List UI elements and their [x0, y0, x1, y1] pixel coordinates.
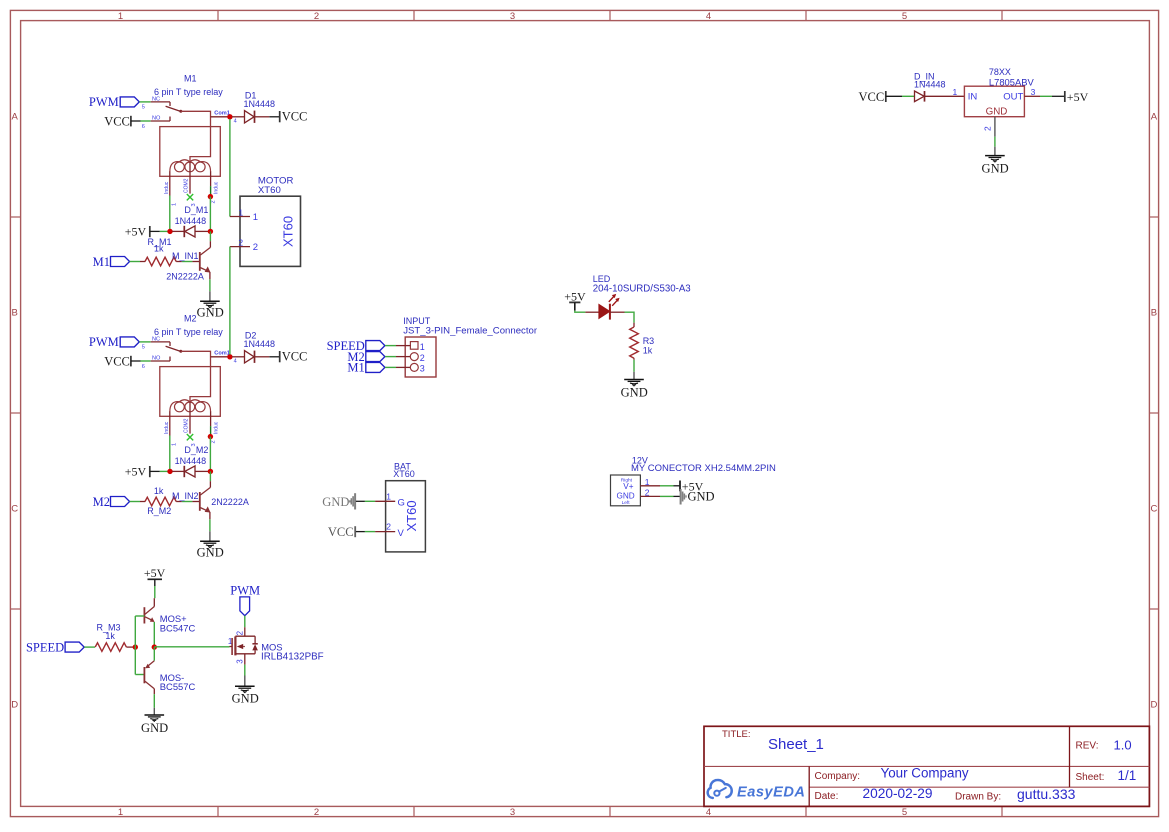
svg-text:GND: GND: [197, 306, 224, 320]
svg-text:5: 5: [902, 807, 907, 818]
svg-text:IRLB4132PBF: IRLB4132PBF: [261, 652, 324, 663]
svg-text:1N4448: 1N4448: [175, 456, 207, 466]
svg-text:Left: Left: [622, 500, 631, 506]
svg-text:1: 1: [171, 443, 177, 446]
svg-text:2N2222A: 2N2222A: [211, 497, 249, 507]
wire source to ground: [244, 654, 246, 686]
net flag +5V: [680, 479, 704, 493]
svg-text:1N4448: 1N4448: [175, 216, 207, 226]
resistor R3 1k: [630, 327, 655, 358]
wire MOS+ emitter to node: [153, 622, 155, 647]
MY pin 1: [640, 477, 660, 487]
junction left diode row: [167, 469, 172, 474]
wire emitter to ground: [209, 512, 211, 541]
wire regulator pin 2 to ground: [983, 117, 995, 156]
svg-text:1: 1: [420, 342, 425, 352]
wire VCC to NO: [131, 117, 170, 122]
wire +5V to MOS+ collector: [153, 586, 156, 607]
svg-text:M_IN1: M_IN1: [172, 251, 199, 261]
svg-text:204-10SURD/S530-A3: 204-10SURD/S530-A3: [593, 284, 691, 295]
ground: [982, 156, 1009, 176]
svg-text:1/1: 1/1: [1118, 768, 1137, 783]
svg-text:2: 2: [253, 242, 258, 253]
BAT pin 1 G: [375, 491, 405, 508]
junction Com1: [227, 354, 232, 359]
EasyEDA logo: [708, 780, 806, 801]
svg-text:XT60: XT60: [258, 185, 281, 196]
svg-text:GND: GND: [986, 107, 1008, 118]
svg-text:INPUT: INPUT: [403, 316, 431, 326]
transistor MOS IRLB4132PBF: [228, 627, 324, 664]
svg-text:1k: 1k: [154, 486, 164, 496]
relay pin labels NC NO Com1: [142, 336, 237, 446]
wire Com1 M1 to MOTOR pin 1: [229, 119, 231, 217]
input port M2: [93, 495, 130, 509]
svg-text:5: 5: [142, 105, 145, 111]
wire PWM to NC: [139, 342, 170, 346]
wire MOSFET gate stub: [230, 646, 233, 648]
net flag +5V at LED: [564, 290, 586, 311]
svg-text:VCC: VCC: [104, 114, 130, 128]
svg-text:M2: M2: [93, 495, 110, 509]
diode D_M2 1N4448: [172, 445, 208, 477]
wire +5V to junction: [150, 230, 168, 232]
svg-text:D: D: [1150, 699, 1157, 710]
svg-text:GND: GND: [982, 161, 1009, 175]
svg-text:PWM: PWM: [89, 335, 119, 349]
transistor MOS+ BC547C: [144, 607, 195, 634]
svg-text:1N4448: 1N4448: [244, 99, 276, 109]
svg-text:5: 5: [142, 345, 145, 351]
wire D_IN to regulator pin 1: [925, 87, 965, 97]
label M1 value: [154, 74, 223, 98]
svg-text:2: 2: [645, 487, 650, 497]
svg-text:M1: M1: [347, 361, 364, 375]
transistor M_IN2 2N2222A: [172, 481, 249, 512]
svg-text:M1: M1: [184, 74, 197, 84]
output port SPEED: [327, 339, 385, 353]
svg-text:B: B: [12, 307, 18, 318]
wire pin 1 to +5V: [660, 485, 680, 487]
wire resistor to base: [176, 261, 199, 263]
svg-text:1: 1: [238, 208, 243, 218]
svg-text:COM2: COM2: [184, 178, 190, 193]
svg-text:Induc: Induc: [213, 181, 219, 194]
svg-text:Induc: Induc: [213, 421, 219, 434]
svg-text:XT60: XT60: [281, 216, 296, 247]
svg-text:+5V: +5V: [1067, 90, 1089, 104]
svg-text:EasyEDA: EasyEDA: [737, 785, 805, 801]
svg-text:PWM: PWM: [89, 95, 119, 109]
output port M1: [347, 361, 384, 375]
row letters right: [1150, 111, 1157, 710]
transistor M_IN1 2N2222A: [166, 241, 210, 281]
junction coil pin 2: [208, 194, 213, 199]
diode D_M1 1N4448: [172, 205, 208, 237]
svg-text:Drawn By:: Drawn By:: [955, 792, 1001, 803]
svg-text:GND: GND: [141, 721, 168, 735]
svg-text:2: 2: [314, 11, 319, 22]
net flag VCC after diode: [269, 110, 307, 124]
svg-text:C: C: [1150, 503, 1157, 514]
net flag VCC at NO: [104, 114, 131, 128]
ground: [621, 380, 648, 400]
svg-text:4: 4: [234, 358, 237, 364]
svg-text:JST_3-PIN_Female_Connector: JST_3-PIN_Female_Connector: [403, 326, 538, 337]
wire node to MOSFET gate: [154, 646, 229, 648]
svg-text:D_M2: D_M2: [184, 445, 208, 455]
svg-text:VCC: VCC: [282, 350, 308, 364]
output port M2: [347, 350, 384, 364]
svg-text:G: G: [398, 498, 405, 509]
svg-text:1: 1: [118, 11, 123, 22]
svg-text:1: 1: [118, 807, 123, 818]
svg-text:BC557C: BC557C: [160, 681, 196, 692]
svg-text:2: 2: [210, 440, 216, 443]
svg-text:1k: 1k: [643, 345, 653, 355]
svg-text:1: 1: [171, 203, 177, 206]
svg-text:2: 2: [314, 807, 319, 818]
svg-text:VCC: VCC: [858, 90, 884, 104]
diode D2 1N4448: [232, 331, 275, 363]
input port SPEED: [26, 641, 84, 655]
svg-text:REV:: REV:: [1076, 741, 1099, 752]
svg-text:A: A: [12, 111, 19, 122]
svg-text:XT60: XT60: [393, 469, 415, 479]
junction coil pin 2: [208, 434, 213, 439]
wire M1 to pin 3: [385, 366, 410, 368]
wire port to resistor: [130, 261, 146, 263]
row letters left: [11, 111, 18, 710]
wire R_M3 to bases: [126, 646, 135, 648]
net flag +5V at regulator: [1065, 90, 1089, 104]
wire SPEED to R_M3: [84, 646, 95, 648]
svg-text:M2: M2: [184, 314, 197, 324]
svg-text:PWM: PWM: [230, 583, 260, 597]
svg-text:2: 2: [236, 630, 245, 635]
wire coil pin 2 down: [210, 426, 212, 434]
wire VCC to D_IN: [886, 95, 914, 97]
svg-text:BC547C: BC547C: [160, 622, 196, 633]
net flag VCC at NO: [104, 354, 131, 368]
svg-text:B: B: [1151, 307, 1157, 318]
wire LED to R3: [610, 312, 634, 327]
svg-text:1k: 1k: [105, 631, 115, 641]
net flag VCC after diode: [269, 350, 307, 364]
svg-text:R_M2: R_M2: [147, 506, 171, 516]
regulator 78XX L7805ABV: [964, 67, 1034, 118]
svg-text:6: 6: [142, 364, 145, 370]
svg-text:COM2: COM2: [184, 418, 190, 433]
resistor R_M2 1k: [145, 486, 176, 516]
wire VCC to BAT pin 2: [356, 531, 375, 533]
wire junction down to diode row: [209, 437, 211, 470]
svg-text:GND: GND: [197, 546, 224, 560]
wire R3 to ground: [633, 358, 635, 379]
svg-text:4: 4: [234, 118, 237, 124]
svg-text:MY CONECTOR XH2.54MM.2PIN: MY CONECTOR XH2.54MM.2PIN: [631, 463, 776, 474]
input port M1: [93, 255, 130, 269]
svg-text:Date:: Date:: [815, 791, 839, 802]
svg-text:C: C: [11, 503, 18, 514]
svg-text:3: 3: [420, 364, 425, 374]
connector 12V MY CONECTOR XH2.54MM.2PIN: [611, 455, 776, 506]
svg-text:Sheet:: Sheet:: [1076, 772, 1105, 783]
svg-text:VCC: VCC: [328, 525, 354, 539]
svg-text:LED: LED: [593, 274, 611, 284]
input port PWM: [89, 335, 139, 349]
svg-text:2: 2: [386, 522, 391, 532]
svg-text:+5V: +5V: [125, 224, 147, 238]
wire output node down: [153, 647, 155, 661]
svg-text:2: 2: [983, 126, 993, 131]
svg-text:Induc: Induc: [164, 181, 170, 194]
net flag GND at BAT: [322, 493, 355, 509]
LED 204-10SURD/S530-A3: [593, 274, 691, 320]
resistor R_M1 1k: [145, 237, 176, 266]
svg-text:M_IN2: M_IN2: [172, 491, 199, 501]
svg-text:3: 3: [236, 659, 245, 664]
ground: [197, 301, 224, 319]
wire resistor to base: [176, 501, 199, 503]
diode D1 1N4448: [232, 91, 275, 123]
svg-text:1.0: 1.0: [1114, 738, 1132, 753]
svg-text:1: 1: [953, 87, 958, 97]
svg-text:Your Company: Your Company: [881, 766, 969, 781]
svg-text:D_M1: D_M1: [184, 205, 208, 215]
wire VCC to NO: [131, 357, 170, 362]
junction output node: [152, 644, 157, 649]
junction right diode row: [208, 229, 213, 234]
title block frame: [704, 726, 1149, 806]
svg-text:1: 1: [645, 477, 650, 487]
wire to transistor collector: [209, 471, 211, 481]
ground: [197, 541, 224, 559]
wire junction down to diode row: [209, 197, 211, 230]
label M2 value: [154, 314, 223, 338]
svg-text:Com1: Com1: [214, 110, 230, 116]
svg-text:6 pin T type relay: 6 pin T type relay: [154, 327, 223, 337]
svg-text:V+: V+: [623, 482, 633, 491]
svg-text:GND: GND: [232, 692, 259, 706]
ground: [232, 686, 259, 705]
resistor R_M3 1k: [95, 623, 126, 652]
svg-text:M1: M1: [93, 255, 110, 269]
net flag VCC at regulator: [858, 90, 885, 104]
input port PWM at MOSFET: [230, 583, 260, 615]
svg-text:1N4448: 1N4448: [914, 80, 946, 90]
wire GND to BAT pin 1: [356, 500, 375, 502]
svg-text:2N2222A: 2N2222A: [166, 271, 204, 281]
wire to transistor collector: [209, 231, 211, 241]
connector MOTOR XT60: [240, 176, 301, 267]
svg-text:GND: GND: [617, 492, 635, 501]
wire regulator pin 3 to +5V: [1024, 87, 1064, 97]
connector BAT XT60: [386, 461, 426, 552]
wire port to resistor: [130, 501, 146, 503]
svg-text:IN: IN: [968, 92, 978, 103]
net flag +5V at driver: [144, 566, 166, 586]
svg-text:3: 3: [510, 807, 515, 818]
title block texts: [722, 729, 1136, 803]
input port PWM: [89, 95, 139, 109]
wire SPEED to pin 1: [385, 345, 410, 347]
wire emitter to ground: [209, 272, 211, 301]
wire PWM to NC: [139, 102, 170, 106]
no-connect X on COM2: [187, 434, 193, 440]
column numbers bottom: [118, 807, 907, 818]
column numbers top: [118, 11, 907, 22]
wire base bus: [135, 616, 144, 675]
wire +5V to LED: [575, 311, 599, 313]
svg-text:OUT: OUT: [1003, 92, 1023, 103]
svg-text:Com1: Com1: [214, 350, 230, 356]
svg-text:1: 1: [386, 491, 391, 501]
junction base node: [133, 644, 138, 649]
connector INPUT JST_3-PIN_Female_Connector: [403, 316, 538, 377]
svg-text:2: 2: [210, 200, 216, 203]
ground: [141, 715, 168, 735]
net flag VCC at BAT: [328, 525, 355, 539]
svg-text:+5V: +5V: [564, 290, 586, 304]
net flag +5V at D_M2 row: [125, 464, 150, 478]
svg-text:1k: 1k: [154, 244, 164, 254]
svg-text:+5V: +5V: [125, 464, 147, 478]
svg-text:4: 4: [706, 11, 711, 22]
relay M1 6 pin T type relay: [160, 106, 228, 195]
wire pin 2 to GND: [660, 495, 680, 497]
MOTOR pin 2: [230, 238, 258, 253]
svg-text:2: 2: [238, 238, 243, 248]
svg-text:Sheet_1: Sheet_1: [768, 736, 824, 753]
wire M2 to pin 2: [385, 356, 410, 358]
svg-text:D: D: [11, 699, 18, 710]
svg-text:6 pin T type relay: 6 pin T type relay: [154, 87, 223, 97]
svg-text:A: A: [1151, 111, 1158, 122]
svg-text:6: 6: [142, 124, 145, 130]
wire +5V to junction: [150, 470, 168, 472]
junction left diode row: [167, 229, 172, 234]
svg-text:VCC: VCC: [282, 110, 308, 124]
relay M2 6 pin T type relay: [160, 346, 228, 435]
svg-text:SPEED: SPEED: [26, 641, 64, 655]
wire MOTOR pin 2 to Com1 M2: [229, 247, 231, 355]
transistor MOS- BC557C: [144, 661, 195, 693]
svg-text:VCC: VCC: [104, 354, 130, 368]
svg-text:Company:: Company:: [815, 771, 861, 782]
svg-text:4: 4: [706, 807, 711, 818]
wire coil pin 2 down: [210, 186, 212, 194]
svg-text:TITLE:: TITLE:: [722, 729, 751, 740]
svg-text:5: 5: [902, 11, 907, 22]
svg-text:GND: GND: [688, 490, 715, 504]
BAT pin 2 V: [375, 522, 404, 539]
net flag GND: [681, 489, 715, 505]
no-connect X on COM2: [187, 194, 193, 200]
junction right diode row: [208, 469, 213, 474]
svg-text:V: V: [398, 528, 405, 539]
svg-text:3: 3: [510, 11, 515, 22]
wire coil pin 1 down: [169, 196, 171, 230]
wire PWM to drain: [244, 616, 246, 628]
net flag +5V at D_M1 row: [125, 224, 150, 238]
junction Com1: [227, 114, 232, 119]
svg-text:+5V: +5V: [144, 566, 166, 580]
relay pin labels NC NO Com1: [142, 96, 237, 206]
svg-text:GND: GND: [621, 386, 648, 400]
svg-text:GND: GND: [322, 495, 349, 509]
svg-text:1: 1: [253, 212, 258, 223]
svg-text:2020-02-29: 2020-02-29: [863, 786, 933, 801]
svg-text:1N4448: 1N4448: [244, 339, 276, 349]
svg-text:XT60: XT60: [404, 500, 419, 531]
MY pin 2: [640, 487, 660, 497]
svg-text:3: 3: [1031, 87, 1036, 97]
svg-text:Induc: Induc: [164, 421, 170, 434]
diode D_IN 1N4448: [914, 72, 946, 102]
wire coil pin 1 down: [169, 436, 171, 470]
svg-text:guttu.333: guttu.333: [1017, 786, 1076, 802]
MOTOR pin 1: [230, 208, 258, 224]
svg-text:2: 2: [420, 353, 425, 363]
wire MOS- collector to ground: [153, 689, 155, 715]
